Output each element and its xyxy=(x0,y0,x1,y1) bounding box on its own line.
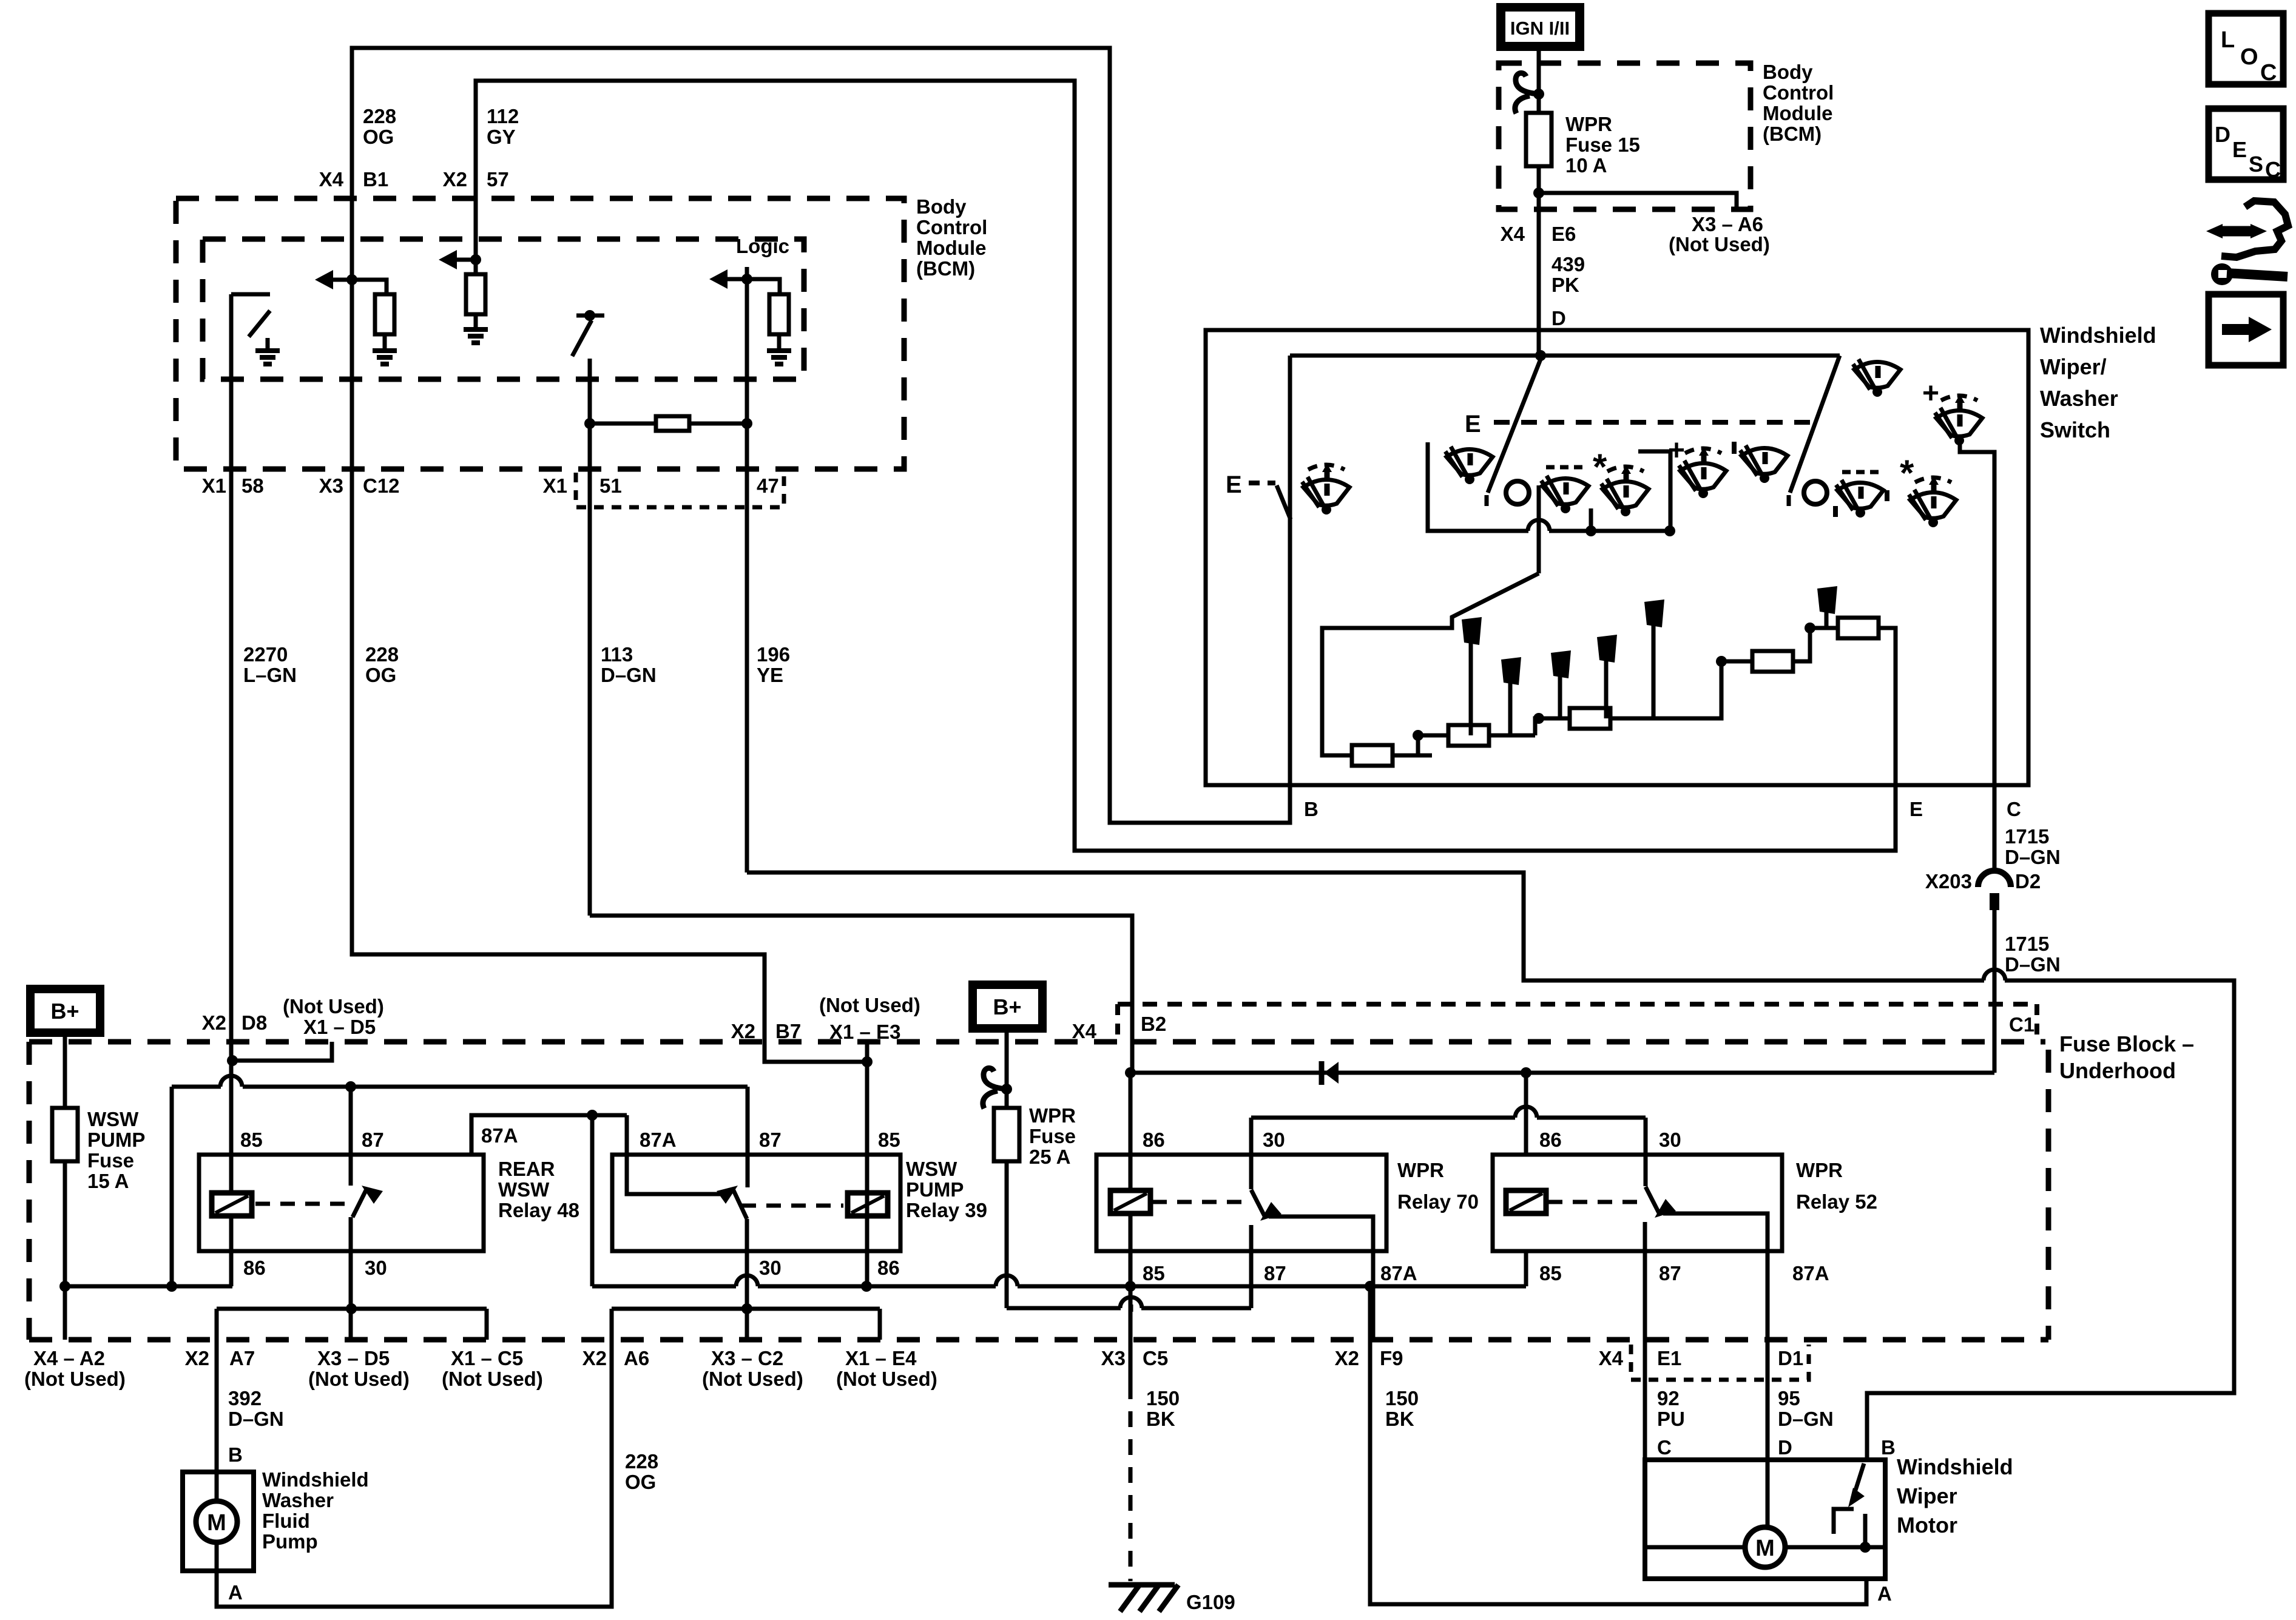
node ladder junction 1 xyxy=(1413,730,1423,741)
wire relay39 30 to X3-C2 xyxy=(745,1219,749,1340)
wire riser to icon 2 xyxy=(1638,451,1670,531)
wire relay52 87A to motor D xyxy=(1663,1213,1768,1460)
svg-text:85: 85 xyxy=(878,1129,900,1151)
resistor ladder R3 xyxy=(1570,708,1610,729)
svg-text:86: 86 xyxy=(877,1257,900,1279)
wire 1715 D-GN to fuse block C1 xyxy=(1993,910,1997,1073)
wire 2270 L-GN to relay48 pin85 xyxy=(229,469,234,1155)
fuse block underhood dashed box xyxy=(29,1039,2045,1045)
wire hop over relay39-30 xyxy=(737,1284,757,1289)
node rail junction 2 xyxy=(1664,525,1675,536)
wire hop over WPR fuse wire xyxy=(996,1284,1017,1289)
arrow signal out xyxy=(709,269,728,289)
svg-text:86: 86 xyxy=(1143,1129,1165,1151)
icon dashes xyxy=(1546,465,1582,470)
wire to resistor R1 xyxy=(352,280,387,294)
wire fuse out to relay70-87 xyxy=(1007,1306,1121,1311)
svg-text:(Not Used): (Not Used) xyxy=(836,1368,937,1390)
node ladder junction 4 xyxy=(1805,623,1815,633)
wire hop over 1715 D-GN xyxy=(1984,978,2005,983)
svg-text:A6: A6 xyxy=(624,1347,649,1369)
ground G109 xyxy=(1109,1582,1175,1588)
svg-text:X2: X2 xyxy=(202,1011,226,1034)
svg-text:87A: 87A xyxy=(1380,1262,1417,1284)
wire 196 YE pin 47 xyxy=(745,267,749,872)
ground below R4 xyxy=(767,348,791,353)
relay70 coil xyxy=(1110,1190,1150,1213)
motor M wiper xyxy=(1745,1527,1785,1567)
svg-text:E: E xyxy=(1465,411,1481,437)
wire blade1 contact drop xyxy=(1537,485,1541,573)
switch contact blob 6 xyxy=(1817,586,1837,614)
fuse block inner dashed row B2-C1 xyxy=(1118,1002,2037,1007)
wire to relay39 pin85 xyxy=(865,1062,869,1155)
wire B+ to WPR fuse 25A xyxy=(1005,1028,1009,1108)
arrow signal out xyxy=(315,270,333,289)
node junction park switch xyxy=(1860,1542,1871,1553)
wire hop on contact rail xyxy=(1528,528,1549,533)
wire ladder rise2 xyxy=(1535,718,1614,735)
windshield wiper motor box xyxy=(1645,1460,1885,1579)
node junction hook 2 xyxy=(1001,1084,1012,1095)
svg-text:87A: 87A xyxy=(1792,1262,1829,1284)
svg-text:X2: X2 xyxy=(731,1020,755,1042)
svg-text:X203: X203 xyxy=(1925,870,1972,893)
relay WPR Relay 52 box xyxy=(1493,1155,1782,1251)
icon dashes right xyxy=(1842,470,1879,474)
relay70 armature xyxy=(1251,1190,1265,1217)
wire 87 rail right xyxy=(243,1085,748,1089)
svg-text:L: L xyxy=(2221,27,2235,53)
icon tick I xyxy=(1732,442,1737,454)
icon wiper washer right xyxy=(1836,480,1883,518)
wire relay52 86 down xyxy=(1524,1073,1528,1155)
svg-text:X4 – A2: X4 – A2 xyxy=(33,1347,105,1369)
wire rail 86 xyxy=(65,1284,232,1289)
svg-text:85: 85 xyxy=(1143,1262,1165,1284)
svg-text:112GY: 112GY xyxy=(487,105,519,148)
svg-text:(Not Used): (Not Used) xyxy=(702,1368,803,1390)
wire diode line xyxy=(1130,1071,1994,1075)
wire bracket A6 xyxy=(612,1307,880,1311)
wire 196 YE to wiper motor B xyxy=(747,872,2234,1460)
wire blob drop 4 xyxy=(1604,660,1609,718)
svg-text:G109: G109 xyxy=(1186,1591,1235,1613)
svg-text:C1: C1 xyxy=(2009,1013,2034,1036)
resistor ladder R5 xyxy=(1838,618,1879,638)
relay52 armature xyxy=(1646,1187,1660,1214)
svg-text:X1 – C5: X1 – C5 xyxy=(451,1347,523,1369)
node junction on B1 wire xyxy=(346,274,357,285)
relay48 coil xyxy=(212,1193,252,1216)
svg-text:B: B xyxy=(1304,798,1319,820)
svg-text:IGN I/II: IGN I/II xyxy=(1510,18,1570,39)
svg-text:E1: E1 xyxy=(1657,1347,1681,1369)
node junction X1-D5 xyxy=(227,1055,238,1066)
wire relay39 87 stub xyxy=(746,1087,750,1187)
svg-text:228OG: 228OG xyxy=(625,1450,658,1493)
svg-text:85: 85 xyxy=(240,1129,263,1151)
wire blob drop 5 xyxy=(1652,625,1656,718)
wire relay70 coil 86-85 xyxy=(1129,1155,1133,1286)
svg-text:B+: B+ xyxy=(50,999,79,1024)
relay48 armature xyxy=(353,1189,366,1217)
node ladder junction 2 xyxy=(1533,713,1544,724)
icon vehicle outline with arrows and wrench xyxy=(2221,201,2288,257)
svg-text:228OG: 228OG xyxy=(363,105,396,148)
wire switch common top xyxy=(1290,354,1840,358)
svg-text:X3: X3 xyxy=(319,474,343,497)
wire 150 BK F9 to motor A xyxy=(1370,1286,1866,1604)
wire 87A drop xyxy=(590,1115,595,1286)
wire blob drop 6 xyxy=(1825,612,1829,628)
icon LOC box xyxy=(2209,13,2283,84)
svg-text:(Not Used): (Not Used) xyxy=(819,994,920,1016)
wire relay48 87 stub xyxy=(349,1087,353,1186)
wire hop 87rail over L-GN xyxy=(221,1084,241,1089)
svg-text:X4: X4 xyxy=(1599,1347,1624,1369)
svg-text:X2: X2 xyxy=(443,168,467,191)
svg-text:X4: X4 xyxy=(1501,223,1525,245)
wire relay52 30 stub xyxy=(1644,1118,1648,1186)
resistor R2 in BCM xyxy=(466,274,485,314)
wire 150 BK solid xyxy=(1129,1286,1133,1383)
svg-text:D: D xyxy=(1778,1436,1792,1459)
fuse WSW PUMP Fuse 15A xyxy=(52,1108,78,1161)
connector X4 dashed sub-box xyxy=(1631,1345,1809,1380)
fuse WPR Fuse 25A xyxy=(994,1108,1019,1161)
svg-text:C: C xyxy=(2007,798,2021,820)
wire fuse output xyxy=(1537,166,1541,193)
icon wiper intermittent xyxy=(1302,464,1349,515)
wire switch B riser xyxy=(1288,356,1292,785)
node junction on 47 wire xyxy=(741,274,752,285)
BCM logic dashed box xyxy=(203,239,804,379)
node junction 87 relay48 xyxy=(345,1081,356,1092)
svg-text:X3 – D5: X3 – D5 xyxy=(317,1347,390,1369)
svg-text:+: + xyxy=(1922,377,1939,410)
icon DESC box xyxy=(2209,109,2283,180)
power feed IGN I/II box xyxy=(1496,3,1584,51)
svg-text:B+: B+ xyxy=(993,994,1021,1019)
svg-text:(Not Used): (Not Used) xyxy=(24,1368,126,1390)
svg-text:58: 58 xyxy=(241,474,264,497)
resistor ladder R1 xyxy=(1352,745,1393,766)
power feed B+ left xyxy=(30,989,100,1033)
ground below R1 xyxy=(373,348,397,353)
icon wiper washer xyxy=(1541,476,1589,513)
svg-text:228OG: 228OG xyxy=(365,643,399,686)
windshield wiper/washer switch box xyxy=(1206,330,2028,785)
switch S1 in BCM xyxy=(231,292,270,297)
wire B+ to WSW fuse xyxy=(63,1033,67,1108)
wire 30 bus seg2 xyxy=(1537,1116,1646,1120)
svg-text:X2: X2 xyxy=(582,1347,607,1369)
stub X1-C5 not used xyxy=(485,1309,489,1340)
relay WPR Relay 70 box xyxy=(1096,1155,1386,1251)
wire blob drop 3 xyxy=(1558,676,1562,718)
svg-text:E6: E6 xyxy=(1551,223,1576,245)
node rail junction xyxy=(1585,525,1596,536)
svg-text:Logic: Logic xyxy=(736,235,789,257)
svg-text:87: 87 xyxy=(1659,1262,1681,1284)
node junction fuse/rail xyxy=(59,1281,70,1292)
switch contact blob 1 xyxy=(1462,617,1482,645)
windshield washer fluid pump box xyxy=(183,1472,254,1571)
icon wiper high xyxy=(1853,359,1900,397)
svg-text:X1 – D5: X1 – D5 xyxy=(303,1016,376,1038)
wire fuse to rail and X4-A2 xyxy=(63,1161,67,1340)
svg-text:M: M xyxy=(207,1510,226,1536)
node junction relay52-86 xyxy=(1521,1067,1531,1078)
connector X1 dashed sub-box xyxy=(576,473,784,507)
wire ladder rise1 xyxy=(1416,735,1420,755)
relay48 actuation dashed xyxy=(255,1202,345,1206)
icon wiper mist xyxy=(1601,465,1649,516)
stub X1-E4 not used xyxy=(878,1309,882,1340)
wire 87 rail left xyxy=(172,1085,221,1089)
node ladder junction 3 xyxy=(1716,656,1727,667)
fusible link hook 2 xyxy=(983,1068,1007,1109)
wire mid rail seg1 xyxy=(592,1284,736,1289)
svg-text:D: D xyxy=(1551,307,1566,329)
wire ladder to E xyxy=(1879,628,1896,851)
icon wiper plus top xyxy=(1935,394,1982,445)
wire motor C internal xyxy=(1645,1545,1745,1550)
fusible link hook xyxy=(1515,73,1539,113)
svg-text:X1 – E4: X1 – E4 xyxy=(845,1347,917,1369)
icon wiper plus xyxy=(1679,447,1726,498)
svg-text:F9: F9 xyxy=(1380,1347,1403,1369)
wire B entry xyxy=(1865,1458,1869,1462)
node junction relay70-86 xyxy=(1125,1067,1136,1078)
svg-text:86: 86 xyxy=(1539,1129,1562,1151)
icon continue-arrow box xyxy=(2209,294,2283,365)
resistor ladder R4 xyxy=(1752,651,1793,672)
wire 113 D-GN to relay70 coil xyxy=(590,916,1132,1073)
wire 439 PK to switch D xyxy=(1537,193,1541,356)
svg-text:X1: X1 xyxy=(543,474,567,497)
svg-text:30: 30 xyxy=(1263,1129,1285,1151)
node junction relay70-85 xyxy=(1125,1281,1136,1292)
svg-text:30: 30 xyxy=(365,1257,387,1279)
node junction 51/resistor xyxy=(584,418,595,429)
stub X1-D5 not used xyxy=(232,1042,332,1061)
svg-text:B: B xyxy=(228,1443,243,1466)
icon circle O xyxy=(1506,481,1529,504)
wire relay70 87A xyxy=(1269,1217,1373,1340)
svg-text:D8: D8 xyxy=(241,1011,267,1034)
relay REAR WSW Relay 48 box xyxy=(199,1155,484,1251)
motor park switch xyxy=(1863,1514,1868,1547)
switch contact blob 2 xyxy=(1501,657,1521,685)
relay39 coil xyxy=(848,1193,888,1216)
node junction rail/87riser xyxy=(166,1281,177,1292)
resistor ladder R2 xyxy=(1448,725,1489,746)
wire 112 GY BCM X2-57 to switch E xyxy=(476,81,1896,851)
svg-text:*: * xyxy=(1593,447,1607,487)
svg-text:C: C xyxy=(1657,1436,1672,1459)
wire WPR fuse output xyxy=(1005,1161,1009,1308)
svg-text:B7: B7 xyxy=(775,1020,801,1042)
wire 228 OG A6 to pump A xyxy=(217,1309,612,1607)
relay52 actuation dashed xyxy=(1548,1200,1637,1204)
relay39 armature xyxy=(733,1189,747,1219)
node junction relay48-30 xyxy=(346,1303,357,1314)
relay52 coil xyxy=(1506,1190,1546,1213)
wire to resistor R3 xyxy=(590,422,655,426)
svg-text:A: A xyxy=(1877,1582,1892,1605)
ground below R2 xyxy=(464,327,488,332)
switch contact blob 4 xyxy=(1597,635,1617,663)
wire 57 inside BCM xyxy=(474,198,478,274)
wire mid rail seg2 xyxy=(758,1284,996,1289)
wire relay70 30 stub xyxy=(1249,1118,1254,1189)
icon tick xyxy=(1885,490,1889,501)
wire ladder seg1 xyxy=(1331,754,1432,758)
svg-text:D: D xyxy=(2215,122,2230,147)
wire motor to park switch xyxy=(1785,1545,1885,1550)
wire to resistor R4 xyxy=(747,279,780,294)
wire 87A bridge xyxy=(471,1115,627,1155)
power feed B+ right xyxy=(973,985,1042,1028)
svg-text:X1: X1 xyxy=(202,474,226,497)
svg-text:E: E xyxy=(1226,471,1242,498)
svg-text:B: B xyxy=(1881,1436,1896,1459)
connector X203 xyxy=(1978,871,2011,887)
svg-text:E: E xyxy=(1909,798,1923,820)
svg-text:A7: A7 xyxy=(229,1347,255,1369)
switch contact blob 3 xyxy=(1551,650,1571,678)
svg-text:S: S xyxy=(2249,152,2263,177)
wire relay70 87 stub xyxy=(1249,1225,1254,1308)
svg-text:87: 87 xyxy=(362,1129,384,1151)
node junction relay39-30 xyxy=(741,1303,752,1314)
svg-text:87: 87 xyxy=(1264,1262,1286,1284)
svg-text:47: 47 xyxy=(757,474,779,497)
svg-text:30: 30 xyxy=(1659,1129,1681,1151)
wire relay48 30 to X3-D5 xyxy=(349,1217,353,1340)
svg-text:87: 87 xyxy=(759,1129,782,1151)
svg-text:X3 – A6: X3 – A6 xyxy=(1692,213,1763,235)
wrench xyxy=(2211,263,2233,285)
node junction X3-A6 branch xyxy=(1533,187,1544,198)
wire 228 OG through BCM xyxy=(350,198,354,469)
node switch D pivot xyxy=(1535,350,1546,361)
svg-text:85: 85 xyxy=(1539,1262,1562,1284)
svg-text:(Not Used): (Not Used) xyxy=(1669,233,1770,255)
arrow signal out xyxy=(439,250,457,269)
switch blade E xyxy=(1277,485,1291,519)
svg-text:X3: X3 xyxy=(1101,1347,1126,1369)
switch S2 in BCM xyxy=(576,314,604,318)
wire 228 OG BCM X4-B1 to switch B xyxy=(352,48,1290,823)
wire to arrow xyxy=(457,258,476,262)
BCM dashed box xyxy=(176,198,904,469)
svg-text:A: A xyxy=(228,1581,243,1604)
wire 392 D-GN to pump B xyxy=(215,1309,219,1472)
svg-text:E: E xyxy=(2232,137,2247,162)
contact tick xyxy=(1485,495,1489,506)
BCM dashed box 2 xyxy=(1499,63,1751,209)
wire mid rail seg3 xyxy=(1018,1284,1526,1289)
icon wiper low xyxy=(1740,445,1788,483)
node junction 87A bridge xyxy=(587,1110,598,1121)
node X1-E3 junction xyxy=(862,1056,873,1067)
resistor R1 in BCM xyxy=(375,294,394,334)
svg-text:86: 86 xyxy=(243,1257,266,1279)
wire bracket pump-B xyxy=(217,1307,487,1311)
wire ladder seg2 xyxy=(1418,734,1535,738)
svg-text:D2: D2 xyxy=(2015,870,2041,893)
icon wiper mist right xyxy=(1909,476,1956,527)
icon tick xyxy=(1833,506,1838,517)
diode D1 xyxy=(1319,1061,1325,1085)
svg-text:(Not Used): (Not Used) xyxy=(442,1368,543,1390)
wire relay39 coil 85-86 xyxy=(865,1155,869,1286)
node junction relay70-87A xyxy=(1365,1281,1376,1292)
wire hop over relay52-86 xyxy=(1516,1115,1536,1120)
switch contact blob 5 xyxy=(1644,599,1664,627)
contact tick xyxy=(1787,495,1791,506)
fuse WPR Fuse 15 10A xyxy=(1526,113,1551,166)
svg-text:X4: X4 xyxy=(319,168,344,191)
svg-text:*: * xyxy=(1900,453,1914,493)
svg-text:150BK: 150BK xyxy=(1385,1387,1419,1430)
wire relay52-85 to rail xyxy=(1524,1251,1528,1286)
wire 2270 L-GN inside BCM xyxy=(229,294,234,469)
ground in BCM logic xyxy=(255,348,280,353)
wire pump A internal xyxy=(215,1542,219,1571)
svg-text:51: 51 xyxy=(599,474,622,497)
wire relay52 87 to X4-E1 to motor C xyxy=(1643,1222,1647,1460)
svg-text:150BK: 150BK xyxy=(1146,1387,1180,1430)
svg-text:30: 30 xyxy=(759,1257,782,1279)
svg-text:C12: C12 xyxy=(363,474,400,497)
svg-text:O: O xyxy=(2240,44,2258,70)
svg-text:B1: B1 xyxy=(363,168,388,191)
wire pump B internal xyxy=(215,1472,219,1501)
svg-text:X2: X2 xyxy=(185,1347,209,1369)
svg-text:C: C xyxy=(2265,157,2281,182)
svg-text:87A: 87A xyxy=(481,1124,518,1147)
switch contact rail xyxy=(1428,442,1528,531)
wire motor D internal xyxy=(1766,1460,1770,1527)
wire to arrow xyxy=(333,278,352,282)
svg-text:X3 – C2: X3 – C2 xyxy=(711,1347,783,1369)
stub X3-A6 not used xyxy=(1539,193,1737,209)
wire riser to icon xyxy=(1589,508,1593,531)
node pivot of switch S2 xyxy=(584,310,595,321)
resistor R4 in BCM xyxy=(769,294,789,334)
wire 113 D-GN pin 51 xyxy=(588,359,592,916)
svg-text:B2: B2 xyxy=(1141,1013,1166,1035)
wire 228 OG C12 to relay39 coil xyxy=(352,469,867,1062)
wire relay39 87A contact xyxy=(627,1115,728,1194)
node junction 47/resistor xyxy=(741,418,752,429)
wire hop over C5 xyxy=(1121,1306,1141,1311)
wire IGN to WPR fuse xyxy=(1537,51,1541,113)
node junction relay39-86 xyxy=(861,1281,872,1292)
svg-text:C5: C5 xyxy=(1143,1347,1168,1369)
stub X1-E3 not used xyxy=(865,1042,869,1062)
svg-text:(Not Used): (Not Used) xyxy=(283,995,384,1018)
relay39 actuation dashed xyxy=(741,1204,843,1208)
park switch contact xyxy=(1834,1509,1854,1534)
icon circle O right xyxy=(1804,481,1827,504)
wire 87 rail riser xyxy=(170,1087,174,1286)
motor M pump xyxy=(196,1501,237,1542)
